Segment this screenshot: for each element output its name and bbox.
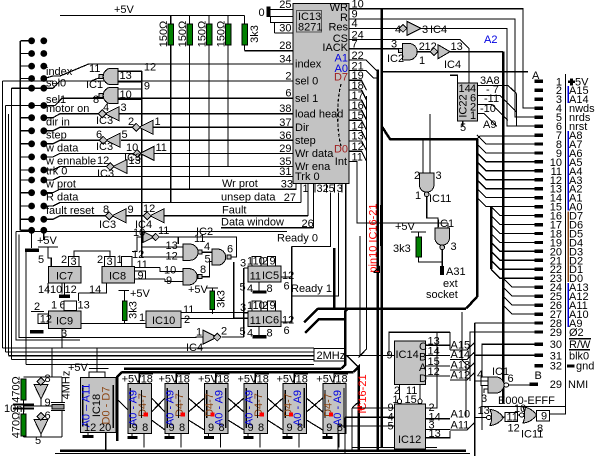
wire to oscillator xyxy=(25,252,27,365)
RAM chip IC21 gnd xyxy=(322,434,332,439)
wire Res-inverter to nrst pin6 xyxy=(419,28,535,126)
wire A8 to pin7 xyxy=(477,136,535,139)
osc bottom wire xyxy=(24,436,63,438)
wire D7 to pin16 xyxy=(491,207,535,216)
svg-text:29: 29 xyxy=(550,379,562,391)
IC18 top notch xyxy=(89,372,105,378)
IC22 right pin wires xyxy=(478,86,517,94)
connector pin numbers xyxy=(550,76,562,391)
connector separator line xyxy=(550,74,566,414)
wire IC1 out to ext socket xyxy=(441,250,443,266)
gnd bar symbol xyxy=(567,364,575,367)
osc mid wire xyxy=(24,405,63,407)
A0 wire from chip xyxy=(349,71,377,79)
IC14 pin9 wire from 2MHz xyxy=(345,354,394,356)
svg-text:8: 8 xyxy=(267,283,273,295)
brown bar D7-D0 xyxy=(567,212,569,283)
resistor 470ohm #1 xyxy=(11,376,27,403)
+5V IC18 xyxy=(68,348,109,374)
svg-text:IC7: IC7 xyxy=(56,271,73,283)
node fault reset xyxy=(44,216,112,220)
svg-text:9: 9 xyxy=(270,300,276,312)
svg-text:4: 4 xyxy=(395,24,401,36)
svg-text:12: 12 xyxy=(508,423,520,435)
NAND gate IC1 a xyxy=(86,63,132,91)
RAM chip IC19 gnd xyxy=(244,434,254,439)
svg-text:A0 - A9: A0 - A9 xyxy=(214,390,226,426)
svg-text:12: 12 xyxy=(65,284,77,296)
svg-text:IC8: IC8 xyxy=(109,271,126,283)
NOR gate IC11 b xyxy=(514,403,550,441)
svg-text:150Ω: 150Ω xyxy=(177,21,189,48)
svg-text:A2: A2 xyxy=(484,34,497,46)
svg-text:9: 9 xyxy=(248,422,254,434)
svg-text:1: 1 xyxy=(51,300,57,312)
wire top box to A15 xyxy=(449,332,451,350)
right pin numbers xyxy=(352,0,364,163)
IC12 right wires + A10 A11 xyxy=(451,408,471,431)
IC9 xyxy=(30,300,90,349)
frame wire inner to IC4 input xyxy=(19,235,203,338)
frame wire top xyxy=(16,231,287,233)
wire top box extension xyxy=(437,331,450,333)
Data window wire xyxy=(221,227,313,229)
+5V bottom of connector xyxy=(37,230,58,266)
svg-text:9: 9 xyxy=(128,204,134,216)
node w prot xyxy=(44,189,296,193)
svg-text:5: 5 xyxy=(240,282,246,294)
bottom-left outside labels xyxy=(221,178,284,229)
svg-text:2: 2 xyxy=(221,326,227,338)
AND gate IC11 vertical xyxy=(414,114,451,228)
svg-text:9: 9 xyxy=(541,411,547,423)
svg-text:1: 1 xyxy=(419,55,425,67)
svg-text:IC4: IC4 xyxy=(444,59,461,71)
svg-text:8: 8 xyxy=(200,264,206,276)
svg-text:unsep data: unsep data xyxy=(221,191,276,203)
svg-text:4: 4 xyxy=(204,241,210,253)
svg-text:gnd: gnd xyxy=(576,361,594,373)
node dir in xyxy=(44,127,137,131)
svg-text:IC4: IC4 xyxy=(430,24,447,36)
svg-text:3k3: 3k3 xyxy=(128,301,140,319)
svg-text:13: 13 xyxy=(120,70,132,82)
RAM chip IC16 xyxy=(122,371,154,434)
svg-text:IC14: IC14 xyxy=(396,349,419,361)
A bus vertical right xyxy=(474,323,476,456)
svg-text:0: 0 xyxy=(259,7,265,19)
RAM interconnect diagonals xyxy=(152,398,166,412)
svg-text:470Ω: 470Ω xyxy=(11,376,23,403)
wire A2 to pin13 xyxy=(477,180,535,189)
svg-text:150Ω: 150Ω xyxy=(196,21,208,48)
chip bottom pin buses xyxy=(333,248,336,309)
svg-text:12: 12 xyxy=(40,314,52,326)
IC6 xyxy=(240,300,295,340)
svg-text:150Ω: 150Ω xyxy=(158,21,170,48)
data bus D7..D0 from chip right xyxy=(349,80,366,90)
svg-text:12: 12 xyxy=(144,62,156,74)
wire D4 to pin19 xyxy=(491,233,535,242)
svg-text:2: 2 xyxy=(128,116,134,128)
IC22 pin5 stub xyxy=(462,121,464,126)
svg-text:4: 4 xyxy=(247,328,253,340)
left connector vertical xyxy=(19,41,21,231)
svg-text:NMI: NMI xyxy=(568,379,588,391)
+5V cross symbol xyxy=(568,78,575,85)
wire D bus to IC12 pin9 xyxy=(352,402,359,408)
RAM chip IC17 pin8 wire xyxy=(180,434,182,448)
node sel0 xyxy=(44,87,53,89)
IC18 gnd xyxy=(83,433,94,439)
wire A12 to pin25 xyxy=(503,287,535,296)
svg-text:13: 13 xyxy=(78,300,90,312)
svg-text:3: 3 xyxy=(422,24,428,36)
svg-text:IC5: IC5 xyxy=(262,270,279,282)
svg-text:8: 8 xyxy=(93,94,99,106)
wire under IC12 xyxy=(352,447,437,449)
pin 1 / Fault stub xyxy=(307,183,309,215)
svg-text:Ready 0: Ready 0 xyxy=(277,233,318,245)
svg-text:3k3: 3k3 xyxy=(216,290,228,308)
+5V near IC10 xyxy=(188,284,218,296)
svg-text:20: 20 xyxy=(99,422,111,434)
IC14 address labels A15-A12 xyxy=(451,340,471,382)
svg-text:2: 2 xyxy=(184,314,190,326)
wire A11 to pin26 xyxy=(503,296,535,305)
wire bus to oscillator xyxy=(51,348,53,377)
IC14 bottom pins xyxy=(393,384,423,406)
svg-text:+5V: +5V xyxy=(188,284,209,296)
pullup wire drops xyxy=(170,45,172,203)
A1 wire from chip xyxy=(349,60,377,72)
svg-text:Wr data: Wr data xyxy=(295,148,334,160)
NAND IC2 b xyxy=(132,237,237,266)
node step xyxy=(44,140,104,144)
D bus vertical from IC13 xyxy=(359,96,367,358)
svg-text:B: B xyxy=(535,370,542,382)
wire D6 to pin17 xyxy=(491,216,535,225)
chip left inside labels xyxy=(295,59,343,184)
capacitor 10nF xyxy=(4,403,34,415)
wire A6 to pin9 xyxy=(477,144,535,153)
svg-text:2: 2 xyxy=(61,254,67,266)
+5V top rail xyxy=(60,4,245,16)
svg-text:IC2: IC2 xyxy=(387,53,404,65)
svg-text:load head: load head xyxy=(295,108,343,120)
svg-text:+5V: +5V xyxy=(130,288,151,300)
svg-text:IC3: IC3 xyxy=(97,168,114,180)
NAND gate IC1 b xyxy=(91,88,132,107)
wire A3 to pin12 xyxy=(477,171,535,180)
svg-text:D0 - D7: D0 - D7 xyxy=(101,387,113,425)
IC1 input wires to vertical xyxy=(118,62,156,258)
IC14 top box wire (IC12 pin2 to IC14 pin9) xyxy=(389,332,437,408)
IC8 xyxy=(79,249,166,296)
pin 27 wire stub xyxy=(300,183,302,202)
D7-D0 dashed maroon line xyxy=(338,84,341,146)
svg-text:11: 11 xyxy=(156,142,167,154)
wire A0 to pin15 xyxy=(477,198,535,207)
svg-text:A9: A9 xyxy=(483,119,496,131)
wire blk0 to pin31 xyxy=(475,354,535,356)
svg-text:3: 3 xyxy=(391,39,397,51)
RAM chip IC19 pin8 wire xyxy=(259,434,261,448)
pin 28 wire xyxy=(245,50,294,52)
svg-text:Ø2: Ø2 xyxy=(569,327,584,339)
wire drops to resistors xyxy=(170,16,172,25)
R/W overline xyxy=(569,338,591,340)
svg-text:Ready 1: Ready 1 xyxy=(291,283,332,295)
wire WR to nwds pin4 xyxy=(349,9,534,108)
svg-text:pin10 IC16-21: pin10 IC16-21 xyxy=(368,203,380,272)
svg-text:12: 12 xyxy=(143,203,155,215)
svg-text:A31: A31 xyxy=(446,266,466,278)
wire A10 to pin27 xyxy=(503,305,535,314)
svg-text:socket: socket xyxy=(426,289,458,301)
svg-text:1: 1 xyxy=(415,190,421,202)
NMI vertical bus xyxy=(502,52,505,403)
svg-text:3: 3 xyxy=(436,170,442,182)
svg-text:1: 1 xyxy=(155,116,161,128)
wire A4 to pin11 xyxy=(477,162,535,171)
svg-text:IC3: IC3 xyxy=(96,115,113,127)
IC10 wires right xyxy=(181,312,244,314)
NAND IC2 a xyxy=(142,233,212,263)
oscillator top wire xyxy=(24,376,63,378)
bottom bus wires xyxy=(60,449,466,452)
RAM chip IC18 gnd xyxy=(204,434,214,439)
svg-text:3k3: 3k3 xyxy=(249,25,261,43)
svg-text:IC10: IC10 xyxy=(152,315,175,327)
svg-text:IC1: IC1 xyxy=(492,366,509,378)
red rotated label pin10 IC16-21 xyxy=(368,203,381,272)
svg-text:IC11: IC11 xyxy=(429,193,451,205)
svg-text:step: step xyxy=(295,135,316,147)
svg-text:6: 6 xyxy=(284,325,290,337)
svg-text:6: 6 xyxy=(45,410,51,422)
svg-text:13: 13 xyxy=(129,155,141,167)
svg-text:+5V: +5V xyxy=(68,362,89,374)
wire A1 to pin14 xyxy=(477,189,535,198)
node w ennable xyxy=(44,167,112,171)
svg-text:+5V: +5V xyxy=(395,221,416,233)
svg-text:4: 4 xyxy=(103,102,109,114)
svg-text:14: 14 xyxy=(459,83,471,95)
svg-text:29: 29 xyxy=(550,327,562,339)
blk0 overline xyxy=(569,349,590,351)
wire loop to IC8 pin12 xyxy=(132,237,143,252)
svg-text:IC3: IC3 xyxy=(99,219,116,231)
IC22 pin labels xyxy=(480,75,500,131)
D bus vertical xyxy=(490,207,493,270)
wire A13 to pin24 xyxy=(503,278,535,287)
dot stubs to vertical xyxy=(20,41,31,231)
inverter IC3 fault reset xyxy=(99,204,134,231)
IC5/IC6 left verticals xyxy=(243,268,245,337)
svg-text:9: 9 xyxy=(287,422,293,434)
svg-text:sel 0: sel 0 xyxy=(295,76,318,88)
RAM chip IC20 pin8 wire xyxy=(298,434,300,448)
wire clock branch xyxy=(347,355,359,367)
inverter IC3 on IC2 loop xyxy=(133,225,169,243)
svg-text:9: 9 xyxy=(270,256,276,268)
RAM chip IC19 xyxy=(238,371,270,434)
IC13 8271 floppy controller xyxy=(293,4,349,184)
RAM bus enclosure thick xyxy=(122,371,354,374)
svg-text:3: 3 xyxy=(107,256,113,268)
IC18 pin20 wire xyxy=(105,433,107,451)
IC10 xyxy=(146,304,194,327)
mid thick bus horizontals xyxy=(318,307,466,310)
RAM chip IC18 pin8 wire xyxy=(220,434,222,448)
wire IC9 right to IC10 xyxy=(81,323,146,325)
svg-text:5: 5 xyxy=(122,129,128,141)
resistor 3k3 IC9 area xyxy=(118,288,151,324)
node index: slash + wires xyxy=(44,64,89,79)
RAM chip IC17 gnd xyxy=(165,434,175,439)
wire IC7-IC8 top xyxy=(74,251,110,257)
bus corner inner xyxy=(305,319,345,333)
far-left vertical returns xyxy=(2,81,4,348)
inverter IC3 dir in xyxy=(128,116,161,134)
svg-text:9: 9 xyxy=(326,422,332,434)
wire A7 to pin8 xyxy=(477,135,535,144)
svg-text:12: 12 xyxy=(84,422,96,434)
RAM chip IC17 xyxy=(159,371,191,434)
left pin numbers xyxy=(279,0,296,204)
svg-text:9: 9 xyxy=(45,397,51,409)
A31 ext socket pin xyxy=(426,266,466,301)
svg-text:8271: 8271 xyxy=(298,22,322,34)
svg-text:5: 5 xyxy=(240,326,246,338)
svg-text:D7: D7 xyxy=(334,72,348,84)
svg-text:8: 8 xyxy=(219,422,225,434)
svg-text:dir in: dir in xyxy=(46,117,70,129)
svg-text:Trk 0: Trk 0 xyxy=(295,171,320,183)
inverter IC4 after IC2 xyxy=(430,41,503,71)
resistor 3k3 ext xyxy=(393,237,422,257)
NOR gate IC11 a xyxy=(475,405,520,435)
svg-text:IC12: IC12 xyxy=(398,434,421,446)
svg-text:+5V: +5V xyxy=(37,235,58,247)
wire R/W to pin30 xyxy=(482,344,535,430)
svg-text:10: 10 xyxy=(514,403,526,415)
svg-text:3k3: 3k3 xyxy=(393,243,411,255)
node R data xyxy=(44,203,301,207)
wire D1 to pin22 xyxy=(491,260,535,269)
wire A9 to pin28 xyxy=(475,322,535,324)
svg-text:3: 3 xyxy=(121,102,127,114)
svg-text:3: 3 xyxy=(481,393,487,405)
wire D2 to pin21 xyxy=(491,251,535,260)
node motor on xyxy=(44,114,101,118)
wire IC8 14 to IC9 13 xyxy=(78,293,80,301)
svg-text:8: 8 xyxy=(142,422,148,434)
svg-text:sel 1: sel 1 xyxy=(295,93,318,105)
inverter IC3 step xyxy=(96,129,128,153)
wire IC2b output feedback loop xyxy=(160,237,237,257)
svg-text:8: 8 xyxy=(103,204,109,216)
inverter osc #2 xyxy=(34,410,51,447)
svg-text:6: 6 xyxy=(96,129,102,141)
heavy A-bus corner to connector xyxy=(382,126,478,139)
red label IC16-21 xyxy=(357,374,369,413)
wire D3 to pin20 xyxy=(491,242,535,251)
node trk 0 xyxy=(44,177,293,181)
2MHz wire to IC14 pin9 xyxy=(344,354,347,356)
svg-text:11: 11 xyxy=(250,315,261,327)
svg-text:index: index xyxy=(295,59,322,71)
svg-text:3: 3 xyxy=(451,241,457,253)
IC22 address mux xyxy=(458,83,478,134)
svg-text:8: 8 xyxy=(45,373,51,385)
svg-text:9: 9 xyxy=(132,422,138,434)
svg-text:9: 9 xyxy=(144,81,150,93)
wire right bus to gates xyxy=(462,312,466,418)
Ready 1 wire xyxy=(292,193,339,297)
blue bar A8-A0 xyxy=(567,131,569,211)
wire phi2 clock to pin29 xyxy=(470,332,535,381)
pin 26 / Data window stub xyxy=(312,183,314,227)
svg-text:A10: A10 xyxy=(451,408,471,420)
RAM chip IC20 xyxy=(277,371,309,434)
svg-text:IC3: IC3 xyxy=(96,141,113,153)
svg-text:9: 9 xyxy=(169,422,175,434)
inverter IC3 w ennable xyxy=(97,155,141,180)
Ready vertical between IC5 IC6 xyxy=(281,277,292,322)
inverter IC4 near IC10 xyxy=(186,326,244,355)
inverter IC3 w data xyxy=(124,142,167,164)
RAM chip IC21 pin8 wire xyxy=(338,434,340,448)
RAM chip IC18 xyxy=(198,371,230,434)
RAM chip IC16 pin8 wire xyxy=(143,434,145,448)
svg-text:9: 9 xyxy=(208,422,214,434)
chip right inside labels xyxy=(322,2,348,168)
connector pins 1-32 xyxy=(530,80,544,386)
svg-text:8: 8 xyxy=(179,422,185,434)
RAM chip IC16 gnd xyxy=(128,434,138,439)
wire loop to IC2a input xyxy=(177,237,179,244)
inverter IC3 motor on xyxy=(96,102,127,127)
wire IC5 12 up to Ready0 xyxy=(291,247,293,278)
pin 0 symbol top left xyxy=(259,7,294,34)
wire D0 to pin23 xyxy=(491,269,535,278)
svg-text:IC11: IC11 xyxy=(521,429,543,441)
svg-text:5: 5 xyxy=(329,183,335,195)
svg-text:Dir: Dir xyxy=(295,122,309,134)
svg-text:8: 8 xyxy=(258,422,264,434)
svg-text:11: 11 xyxy=(250,271,261,283)
svg-text:32: 32 xyxy=(550,361,562,373)
frame wire outer xyxy=(16,232,80,341)
resistor 3k3 near IC10 xyxy=(210,290,228,314)
svg-text:2: 2 xyxy=(97,254,103,266)
svg-text:4: 4 xyxy=(247,283,253,295)
+5V for 3k3 pullup xyxy=(395,221,426,237)
IC14 xyxy=(387,341,428,385)
NAND IC2 c xyxy=(160,262,212,288)
svg-text:1: 1 xyxy=(470,110,476,122)
inverter IC4 on Res line xyxy=(349,21,447,36)
IC22 left feed xyxy=(450,75,458,83)
IC12 left pin wires xyxy=(352,407,394,409)
Int pin wire xyxy=(349,162,448,224)
wire 3k3 to A31 xyxy=(419,257,443,262)
IC5 xyxy=(240,256,295,296)
svg-text:6: 6 xyxy=(284,281,290,293)
svg-text:IC1: IC1 xyxy=(86,79,103,91)
